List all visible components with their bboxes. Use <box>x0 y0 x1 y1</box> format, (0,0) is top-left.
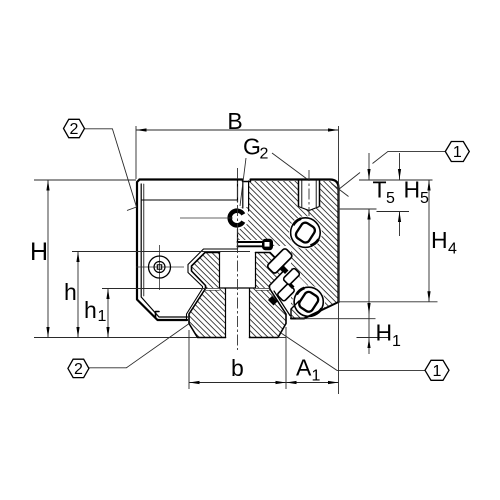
DIMENSIONS <box>34 126 438 394</box>
H4 <box>427 180 430 191</box>
svg-text:1: 1 <box>453 144 462 161</box>
deflector band <box>238 240 314 303</box>
dimension texts <box>30 108 457 385</box>
G2 hole <box>299 180 320 207</box>
svg-text:1: 1 <box>312 368 321 385</box>
seam line <box>142 199 238 201</box>
svg-text:1: 1 <box>433 363 442 380</box>
H5 <box>398 169 401 180</box>
svg-text:2: 2 <box>260 146 269 163</box>
H1 <box>368 291 370 354</box>
right side refs <box>359 179 433 181</box>
carriage outer contour <box>140 180 339 303</box>
lube duct slot + elbow pocket <box>238 180 250 207</box>
leg inner lip <box>274 291 290 316</box>
H1 <box>367 303 370 315</box>
leg bottom + chamfer <box>291 302 339 319</box>
H4 <box>428 180 430 302</box>
svg-text:5: 5 <box>420 190 429 207</box>
RAIL hatch <box>189 253 286 338</box>
b <box>189 381 200 384</box>
rail outline <box>189 253 286 338</box>
svg-text:5: 5 <box>386 190 395 207</box>
svg-text:1: 1 <box>98 308 107 325</box>
G2 hole <box>299 180 320 207</box>
rail screw counterbore + hole (white) <box>205 252 271 339</box>
ball clearances <box>289 216 322 249</box>
retainer pieces <box>267 248 301 306</box>
seal notch <box>156 312 160 318</box>
end plate inner contour <box>141 184 187 317</box>
svg-text:A: A <box>296 355 312 381</box>
nozzle blob <box>262 239 273 251</box>
rail counterbore + hole <box>220 253 256 338</box>
svg-text:H: H <box>30 238 48 266</box>
svg-text:1: 1 <box>392 333 401 350</box>
arrowheads <box>46 128 430 384</box>
T5 <box>367 169 370 180</box>
A1 <box>286 381 297 384</box>
SECTION HATCH: carriage body <box>238 181 339 319</box>
white cavity overlays <box>186 180 326 341</box>
svg-text:G: G <box>243 134 261 160</box>
left edge + bottom of end plate <box>137 180 187 321</box>
svg-text:b: b <box>231 355 244 381</box>
hexagon balloons <box>64 119 470 380</box>
svg-text:h: h <box>64 279 77 305</box>
lower ball <box>294 287 323 316</box>
svg-text:2: 2 <box>70 121 79 138</box>
leaders <box>85 129 445 371</box>
plate/body boundary <box>237 180 239 250</box>
svg-text:4: 4 <box>448 241 457 258</box>
svg-text:B: B <box>227 108 242 134</box>
lube tube double line <box>238 241 265 243</box>
H <box>46 180 49 191</box>
H h h1 <box>47 180 49 338</box>
svg-text:H: H <box>431 227 448 253</box>
corner marks <box>339 173 361 190</box>
h1 <box>106 289 109 300</box>
svg-text:T: T <box>373 177 387 203</box>
B <box>136 128 147 131</box>
upper ball <box>291 218 321 248</box>
B <box>136 129 339 131</box>
svg-text:2: 2 <box>74 361 83 378</box>
rail side slits <box>205 288 271 290</box>
BALLS <box>291 218 324 317</box>
lube port crosshair <box>136 245 184 290</box>
lube port circles <box>149 256 171 278</box>
rail clearance <box>186 249 290 341</box>
b + A1 <box>189 382 339 384</box>
svg-text:H: H <box>404 177 421 203</box>
T5 H5 verticals <box>368 153 370 180</box>
plate cutout around rail <box>187 249 238 320</box>
lube elbow <box>180 211 243 226</box>
lube duct slot <box>243 181 249 211</box>
svg-text:H: H <box>376 320 393 346</box>
h <box>76 252 79 263</box>
CENTERLINES <box>238 168 310 350</box>
svg-text:h: h <box>84 297 97 323</box>
CONTOURS <box>137 180 339 338</box>
